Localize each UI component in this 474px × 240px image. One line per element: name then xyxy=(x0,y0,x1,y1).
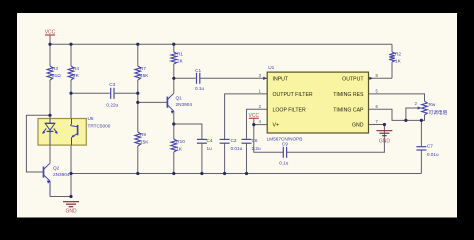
svg-text:LOOP FILTER: LOOP FILTER xyxy=(273,107,307,113)
svg-text:GND: GND xyxy=(379,139,391,145)
wire R2 top xyxy=(391,44,393,52)
svg-text:OUTPUT: OUTPUT xyxy=(342,76,364,82)
svg-text:2K: 2K xyxy=(177,59,184,64)
wire U1 pin 2 to C6 xyxy=(247,109,268,139)
wire V+ node down to C9 line xyxy=(254,125,283,153)
wire C1 right to U1 pin 3 xyxy=(200,77,267,79)
wire rail up to C7 xyxy=(420,150,422,173)
wire Q2 emitter to ground node xyxy=(50,196,71,198)
svg-text:U5: U5 xyxy=(88,116,94,121)
potentiometer Rw wiper arrow xyxy=(418,106,422,109)
wire R7 top xyxy=(137,44,139,66)
svg-text:Q2: Q2 xyxy=(53,166,60,171)
transistor Q1 xyxy=(167,93,174,114)
resistor R9 xyxy=(135,132,141,146)
node C7 on pot line xyxy=(420,119,423,122)
optocoupler U5 phototransistor xyxy=(71,119,78,146)
node rail at C2 xyxy=(223,172,226,175)
svg-text:C3: C3 xyxy=(109,82,115,87)
capacitor C3 plates xyxy=(111,88,114,99)
wire U1 pin 5 to pot top xyxy=(369,94,425,101)
svg-text:INPUT: INPUT xyxy=(273,76,289,82)
U1 pin 3 input arrow xyxy=(263,77,267,80)
wire C9 right to ground riser xyxy=(287,125,385,153)
wire pot wiper xyxy=(406,108,420,120)
node top rail at R4 xyxy=(69,43,72,46)
wire R7 bottom / R9 top column xyxy=(137,80,139,132)
wire U1 pin 7 GND xyxy=(369,124,385,126)
wire node LED anode tap to left xyxy=(26,115,50,172)
optocoupler U5 LED xyxy=(42,119,58,146)
wire U1 pin 8 to R2 xyxy=(369,77,393,79)
wire Q1 base xyxy=(138,101,167,103)
wire C6 bottom xyxy=(246,144,248,174)
wire Q1 emitter down xyxy=(173,111,175,139)
label R4 value xyxy=(73,66,80,78)
capacitor C4 plates xyxy=(197,139,207,143)
svg-text:0.1u: 0.1u xyxy=(279,160,289,165)
label Q2 xyxy=(53,166,70,178)
node rail at R9 xyxy=(136,172,139,175)
wire R10 bottom xyxy=(173,152,175,174)
wire C2 bottom xyxy=(224,144,226,174)
svg-text:R2: R2 xyxy=(395,52,401,57)
label R10 value xyxy=(176,139,185,152)
potentiometer Rw body xyxy=(422,101,428,115)
svg-text:2.2u: 2.2u xyxy=(252,146,262,151)
svg-text:R9: R9 xyxy=(140,132,146,137)
wire R3 bottom to optocoupler LED xyxy=(49,80,51,119)
label Q1 xyxy=(176,96,193,108)
label Rw xyxy=(429,102,448,116)
wire C4 bottom xyxy=(201,144,203,174)
wire R1 bottom xyxy=(173,64,175,78)
resistor R3 xyxy=(47,66,53,80)
wire top VCC rail xyxy=(50,43,392,45)
svg-text:R7: R7 xyxy=(140,66,146,71)
capacitor C1 plates xyxy=(197,73,200,84)
node C3/R7 xyxy=(136,92,139,95)
capacitor C2 plates xyxy=(220,139,230,143)
U1 pin 8 output arrow xyxy=(369,77,373,80)
wire VCC stub left xyxy=(49,36,51,45)
node rail at ground column xyxy=(69,172,72,175)
wire C3 right xyxy=(115,92,138,94)
wire U1 pin 1 to C2 xyxy=(225,94,268,139)
node ground junction xyxy=(69,195,72,198)
label U5 TRTC5000 xyxy=(88,116,111,129)
ground GND below Q2 xyxy=(63,202,79,215)
resistor R2 xyxy=(389,52,395,62)
node LED anode tap xyxy=(48,114,51,117)
label R1 value xyxy=(177,52,184,64)
wire phototransistor emitter down to ground node xyxy=(70,145,72,196)
transistor Q2 xyxy=(44,163,51,196)
svg-text:2N3904: 2N3904 xyxy=(53,172,70,177)
wire R2 bottom xyxy=(391,62,393,78)
node top rail at R7 xyxy=(136,43,139,46)
svg-text:可调电阻: 可调电阻 xyxy=(429,109,448,116)
svg-text:45K: 45K xyxy=(140,73,149,78)
node wiper on pot line xyxy=(404,119,407,122)
resistor R1 xyxy=(171,52,177,64)
svg-text:0.01u: 0.01u xyxy=(427,152,439,157)
node V+ xyxy=(252,123,255,126)
node pin7 ground xyxy=(383,123,386,126)
svg-text:TRTC5000: TRTC5000 xyxy=(88,123,111,128)
node top rail at R3/VCC xyxy=(48,43,51,46)
node emitter/R10 xyxy=(172,122,175,125)
node top rail at R1 xyxy=(172,43,175,46)
wire bottom ground rail xyxy=(71,173,421,175)
svg-text:1K: 1K xyxy=(395,59,402,64)
node rail at R10 xyxy=(172,172,175,175)
label R3 value xyxy=(52,66,61,78)
svg-text:C2: C2 xyxy=(231,138,237,143)
node R4/C3 xyxy=(69,92,72,95)
op-amp U1 LM567 box xyxy=(267,72,368,133)
label R7 value xyxy=(140,66,149,78)
svg-text:TIMING RES: TIMING RES xyxy=(333,92,364,98)
power VCC top left xyxy=(45,29,56,35)
capacitor C6 plates xyxy=(242,139,252,143)
resistor R10 xyxy=(171,139,177,152)
svg-text:C1: C1 xyxy=(195,68,201,73)
svg-text:0.1u: 0.1u xyxy=(195,86,205,91)
svg-text:2K: 2K xyxy=(73,73,80,78)
svg-text:TIMING CAP: TIMING CAP xyxy=(333,107,364,113)
power VCC at U1 V+ xyxy=(249,113,260,119)
wire C7 top to pot line xyxy=(420,120,422,146)
svg-text:0.01u: 0.01u xyxy=(231,146,243,151)
svg-text:C4: C4 xyxy=(207,138,213,143)
svg-text:OUTPUT FILTER: OUTPUT FILTER xyxy=(273,92,313,98)
svg-text:C9: C9 xyxy=(282,141,288,146)
label R9 value xyxy=(140,132,149,145)
wire LED cathode to Q2 collector xyxy=(49,145,51,163)
svg-text:15K: 15K xyxy=(140,140,149,145)
svg-text:R10: R10 xyxy=(176,139,185,144)
optocoupler U5 box xyxy=(38,119,86,146)
resistor R4 xyxy=(68,66,74,80)
ground GND at U1 pin 7 xyxy=(376,131,392,145)
node R7/R9/base xyxy=(136,101,139,104)
wire R4 top xyxy=(70,44,72,66)
wire C1 left xyxy=(174,77,196,79)
svg-text:GND: GND xyxy=(65,208,77,214)
svg-text:U1: U1 xyxy=(268,65,274,70)
svg-text:51Ω: 51Ω xyxy=(52,73,61,78)
svg-text:2N3904: 2N3904 xyxy=(176,102,193,107)
label R2 value xyxy=(395,52,402,64)
wire R4 bottom into optocoupler xyxy=(70,80,72,119)
capacitor C7 plates xyxy=(416,147,426,150)
node rail at C4 xyxy=(200,172,203,175)
wire C3 left xyxy=(71,92,110,94)
svg-text:LM567CN/NOPB: LM567CN/NOPB xyxy=(267,137,303,142)
node R1/C1/collector xyxy=(172,77,175,80)
label C1 value xyxy=(195,68,205,91)
wire emitter node to C4 xyxy=(174,124,202,139)
wire pot bottom line xyxy=(369,109,425,120)
resistor R7 xyxy=(135,66,141,80)
wire U1 pin 4 V+ xyxy=(254,124,267,126)
svg-text:0.22u: 0.22u xyxy=(106,103,118,108)
svg-text:Rw: Rw xyxy=(429,102,436,107)
svg-text:R3: R3 xyxy=(52,66,58,71)
svg-text:1K: 1K xyxy=(176,147,183,152)
svg-text:R4: R4 xyxy=(73,66,79,71)
capacitor C9 plates xyxy=(283,147,286,158)
label C7 value xyxy=(427,144,439,158)
svg-text:C6: C6 xyxy=(252,138,258,143)
svg-text:C7: C7 xyxy=(427,144,433,149)
wire R1 top xyxy=(173,44,175,52)
node rail at C6 xyxy=(245,172,248,175)
label C4 value xyxy=(207,138,213,151)
label C2 value xyxy=(231,138,243,151)
svg-text:Q1: Q1 xyxy=(176,96,183,101)
svg-text:V+: V+ xyxy=(273,123,280,129)
label C3 value xyxy=(106,82,118,107)
svg-text:GND: GND xyxy=(352,123,364,129)
wire Q1 collector up xyxy=(173,78,175,93)
wire R3 top xyxy=(49,44,51,66)
svg-text:1u: 1u xyxy=(207,146,213,151)
label C6 value xyxy=(252,138,262,151)
label C9 value xyxy=(279,141,289,165)
svg-text:R1: R1 xyxy=(177,52,183,57)
wire VCC2 stub xyxy=(253,118,255,124)
wire R9 bottom xyxy=(137,146,139,174)
